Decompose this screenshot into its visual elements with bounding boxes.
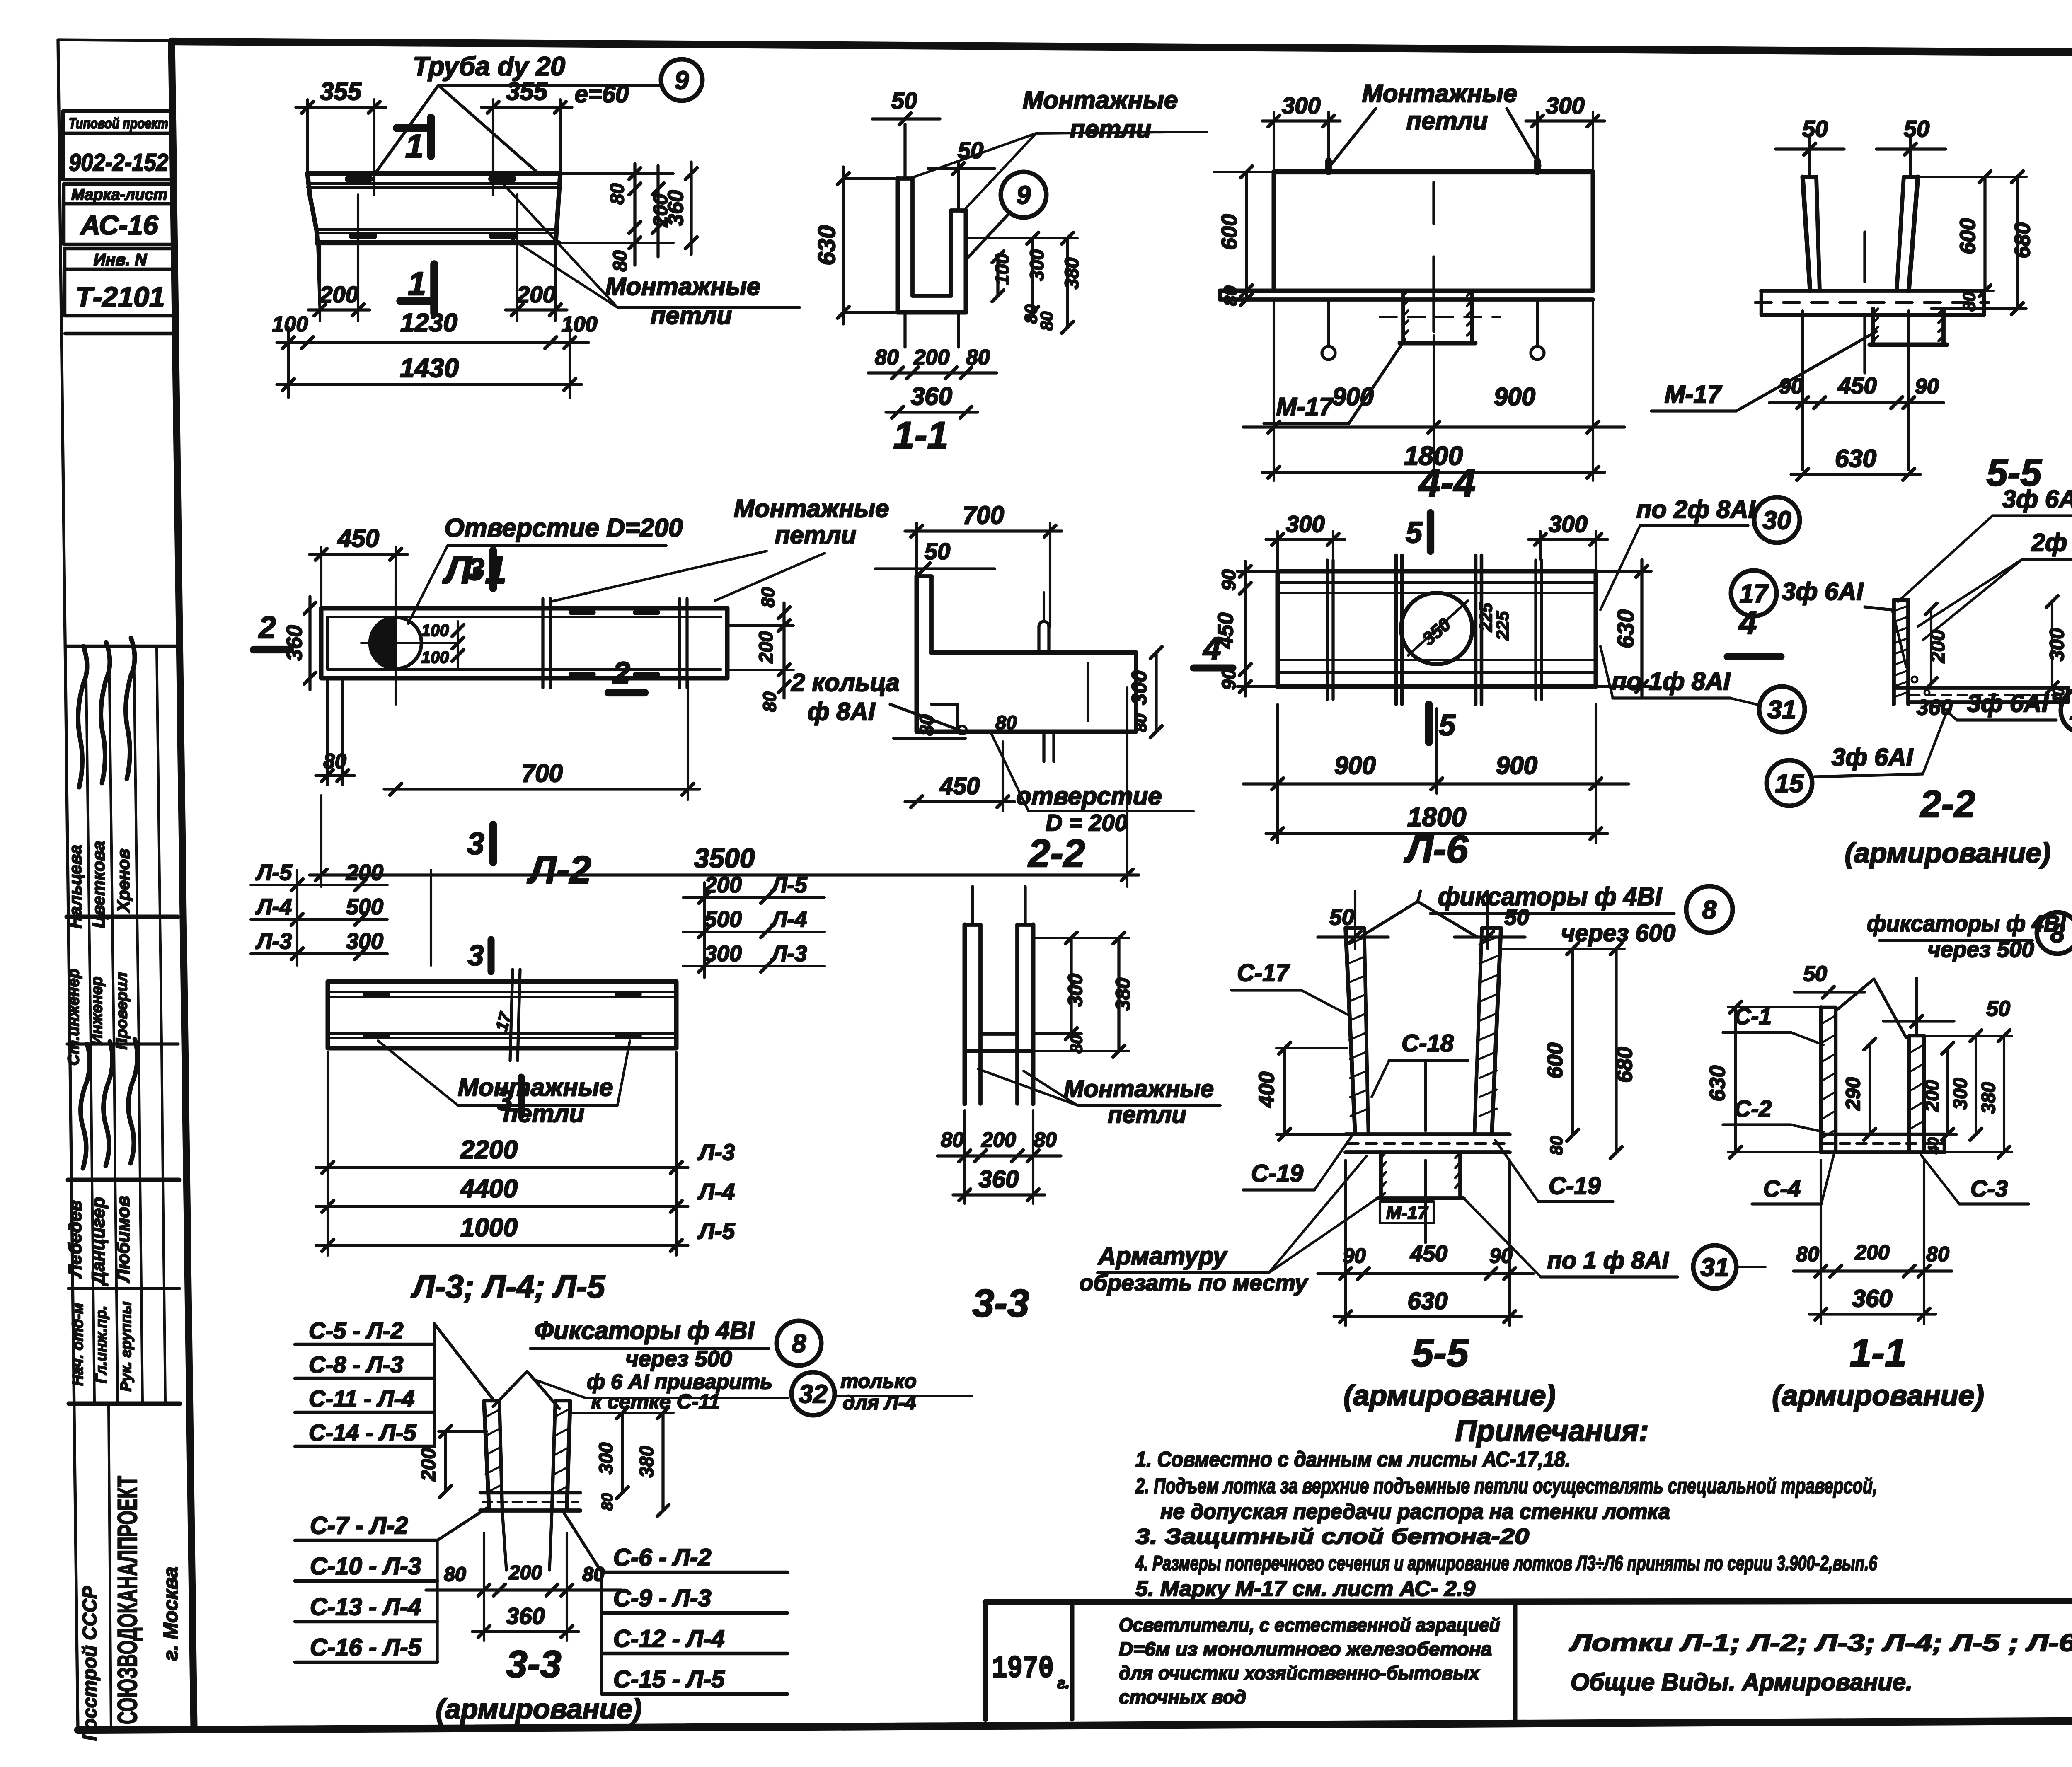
dimension 360 right of Л-1 bbox=[690, 162, 692, 254]
section mark 3 (below Л-2) bbox=[489, 824, 497, 863]
dimension 630 left of 1-1 armature bbox=[1734, 1007, 1737, 1152]
dimension 300/380 right of 3-3 bbox=[1070, 938, 1072, 1034]
dimension 80/200/80 below 1-1 armature bbox=[1794, 1269, 1952, 1272]
svg-text:450: 450 bbox=[1410, 1241, 1447, 1266]
stamp box Инв. N bbox=[65, 249, 176, 269]
section 1-1 dowel stubs below bbox=[903, 312, 906, 347]
svg-text:3ф 6АI: 3ф 6АI bbox=[2002, 485, 2072, 513]
svg-text:15: 15 bbox=[1775, 769, 1804, 798]
svg-text:Монтажные: Монтажные bbox=[1023, 86, 1178, 114]
svg-text:8: 8 bbox=[792, 1329, 806, 1358]
svg-text:1230: 1230 bbox=[400, 309, 457, 337]
section mark 1 (top) bbox=[427, 118, 435, 156]
section 2-2 armature slab band bbox=[1894, 686, 2068, 690]
svg-text:1: 1 bbox=[405, 128, 424, 164]
svg-text:сточных вод: сточных вод bbox=[1119, 1686, 1246, 1708]
svg-text:(армирование): (армирование) bbox=[1772, 1379, 1984, 1412]
dimension 700 above 2-2 bbox=[905, 529, 1062, 532]
svg-text:31: 31 bbox=[1768, 696, 1796, 724]
outer left border line bbox=[58, 40, 78, 1730]
svg-text:1. Совместно с данным см ли: 1. Совместно с данным см листы АС-17,18. bbox=[1135, 1448, 1571, 1472]
dimension 1800 below 4-4 bbox=[1262, 471, 1605, 474]
svg-text:380: 380 bbox=[1978, 1082, 1999, 1114]
stamp column top cap bbox=[58, 40, 173, 41]
svg-text:200: 200 bbox=[346, 860, 383, 885]
svg-text:80: 80 bbox=[1796, 1242, 1819, 1266]
svg-text:Л-3; Л-4; Л-5: Л-3; Л-4; Л-5 bbox=[411, 1268, 606, 1305]
svg-text:Л-2: Л-2 bbox=[527, 848, 591, 892]
svg-text:Марка-лист: Марка-лист bbox=[71, 186, 167, 203]
svg-text:40: 40 bbox=[1925, 1137, 1942, 1154]
svg-text:Л-3: Л-3 bbox=[697, 1139, 735, 1165]
svg-text:100: 100 bbox=[421, 648, 449, 667]
svg-text:петли: петли bbox=[651, 302, 732, 329]
svg-text:100: 100 bbox=[272, 312, 308, 336]
sheet top border bbox=[172, 41, 2072, 55]
svg-text:80: 80 bbox=[444, 1564, 466, 1586]
svg-text:300: 300 bbox=[346, 929, 383, 954]
dimension 50 above left wall of 1-1 bbox=[872, 117, 940, 120]
svg-text:С-11 - Л-4: С-11 - Л-4 bbox=[309, 1385, 414, 1412]
svg-text:500: 500 bbox=[346, 894, 383, 919]
svg-text:по 2ф 8АI: по 2ф 8АI bbox=[1636, 496, 1756, 523]
svg-text:С-19: С-19 bbox=[1251, 1160, 1303, 1187]
dimension 630 below 5-5 armature bbox=[1334, 1315, 1521, 1318]
svg-text:300: 300 bbox=[1549, 511, 1587, 537]
svg-text:80: 80 bbox=[875, 346, 899, 370]
svg-text:80: 80 bbox=[1132, 714, 1150, 732]
fixator leader triangle of 3-3 armature bbox=[493, 1371, 527, 1407]
section 1-1 inner wall (right, low) bbox=[949, 210, 953, 296]
dimension 300/380 right of 3-3 armature bbox=[621, 1413, 624, 1493]
svg-text:к сетке С-11: к сетке С-11 bbox=[591, 1390, 720, 1413]
section mark 3 (above Л-2) bbox=[489, 550, 497, 588]
dimension 200 left of 3-3 armature bbox=[444, 1431, 447, 1491]
dimension 600/680 right of 5-5 bbox=[1983, 177, 1986, 291]
section mark 5 (bottom of Л-6) bbox=[1425, 704, 1433, 742]
svg-text:600: 600 bbox=[1218, 214, 1242, 250]
section 3-3 armature bottom slab bbox=[480, 1491, 580, 1495]
svg-text:3. Защитный слой бетона-20: 3. Защитный слой бетона-20 bbox=[1135, 1525, 1529, 1549]
svg-text:50: 50 bbox=[891, 87, 917, 114]
dimension 1800 below Л-6 bbox=[1266, 832, 1607, 835]
svg-text:Монтажные: Монтажные bbox=[605, 273, 761, 300]
svg-text:900: 900 bbox=[1334, 752, 1376, 779]
svg-text:Монтажные: Монтажные bbox=[458, 1073, 613, 1101]
svg-text:С-8 - Л-3: С-8 - Л-3 bbox=[309, 1351, 403, 1378]
dimension 50 at wall of 2-2 bbox=[875, 567, 995, 570]
svg-text:Типовой проект: Типовой проект bbox=[69, 115, 168, 132]
svg-text:200: 200 bbox=[516, 281, 555, 307]
dim rows 200/500/300 (right) bbox=[703, 882, 706, 978]
svg-text:630: 630 bbox=[1612, 609, 1639, 648]
svg-text:300: 300 bbox=[595, 1442, 617, 1474]
svg-text:(армирование): (армирование) bbox=[436, 1693, 641, 1725]
svg-text:50: 50 bbox=[1802, 116, 1828, 142]
dimension 300 top-right of Л-6 bbox=[1529, 538, 1607, 541]
svg-text:80: 80 bbox=[760, 691, 780, 712]
section mark 3 (top of Л-3..Л-5) bbox=[487, 940, 494, 972]
svg-text:200: 200 bbox=[981, 1128, 1016, 1151]
dimension chain 90/450/90 left of Л-6 bbox=[1244, 561, 1247, 696]
svg-text:г.: г. bbox=[1057, 1675, 1070, 1692]
svg-text:31: 31 bbox=[1701, 1253, 1729, 1282]
view 4-4 axis dash lines bbox=[1432, 182, 1435, 224]
svg-text:С-19: С-19 bbox=[1549, 1172, 1601, 1199]
dimension 630 right of Л-6 bbox=[1640, 560, 1643, 698]
svg-text:355: 355 bbox=[506, 77, 548, 105]
svg-text:С-2: С-2 bbox=[1734, 1095, 1772, 1122]
svg-text:5-5: 5-5 bbox=[1411, 1331, 1469, 1375]
svg-text:360: 360 bbox=[911, 382, 952, 410]
view 4-4 loops below slab bbox=[1322, 346, 1335, 360]
svg-text:1970: 1970 bbox=[992, 1651, 1054, 1687]
svg-text:Л-5: Л-5 bbox=[770, 873, 807, 897]
svg-text:100: 100 bbox=[991, 253, 1013, 285]
svg-text:петли: петли bbox=[503, 1100, 585, 1127]
svg-text:Л-4: Л-4 bbox=[770, 907, 807, 932]
svg-text:30: 30 bbox=[1763, 506, 1791, 535]
sheet bottom border bbox=[78, 1719, 2072, 1730]
svg-text:Л-3: Л-3 bbox=[255, 929, 292, 954]
svg-text:300: 300 bbox=[2046, 628, 2068, 661]
svg-text:Т-2101: Т-2101 bbox=[75, 281, 165, 313]
svg-text:200: 200 bbox=[508, 1562, 542, 1584]
dimension 630 left of 1-1 bbox=[842, 167, 845, 324]
svg-text:1430: 1430 bbox=[400, 353, 459, 383]
title block cell 1970 bbox=[1070, 1602, 1075, 1719]
dimension 200 lower-right of Л-1 bbox=[506, 308, 567, 311]
svg-text:600: 600 bbox=[1956, 218, 1980, 254]
view 4-4 slab top line bbox=[1220, 289, 1593, 293]
svg-text:С-9 - Л-3: С-9 - Л-3 bbox=[613, 1585, 711, 1612]
dimension 50 top of 1-1 armature bbox=[1794, 991, 1865, 993]
svg-text:С-6 - Л-2: С-6 - Л-2 bbox=[613, 1544, 711, 1571]
svg-text:С-14 - Л-5: С-14 - Л-5 bbox=[309, 1419, 416, 1446]
stamp box Марка-лист bbox=[64, 184, 175, 204]
section 5-5 right wall (tapered) bbox=[1897, 177, 1904, 291]
svg-text:2ф 6АI: 2ф 6АI bbox=[2031, 529, 2072, 556]
svg-text:С-4: С-4 bbox=[1763, 1175, 1801, 1201]
dimension chain 100/1230/100 of Л-1 bbox=[277, 341, 588, 344]
svg-text:петли: петли bbox=[1070, 115, 1152, 143]
svg-text:50: 50 bbox=[1904, 116, 1929, 142]
svg-text:3-3: 3-3 bbox=[506, 1643, 562, 1685]
svg-text:680: 680 bbox=[2011, 222, 2035, 259]
section 2-2 left wall bbox=[915, 576, 919, 732]
title block frame bbox=[985, 1600, 2072, 1602]
signature squiggles mid bbox=[81, 1044, 90, 1168]
view Л-1 lifting loop marks bbox=[348, 176, 370, 182]
svg-text:50: 50 bbox=[1504, 905, 1529, 930]
dimension 50 above inner wall of 1-1 bbox=[928, 167, 995, 170]
dimension 4400 / Л-4 row bbox=[316, 1205, 688, 1208]
dimension 90/450/90 below 5-5 bbox=[1769, 401, 1944, 404]
stamp box АС-16 bbox=[64, 204, 175, 244]
svg-text:1-1: 1-1 bbox=[1849, 1331, 1906, 1375]
view Л-1 bottom edge bbox=[317, 240, 559, 245]
section 3-3 loop marks on walls bbox=[971, 887, 974, 925]
view Л-1 top slab edge bbox=[307, 171, 560, 176]
svg-text:630: 630 bbox=[1408, 1288, 1448, 1315]
svg-text:3-3: 3-3 bbox=[972, 1281, 1029, 1325]
svg-text:80: 80 bbox=[1220, 285, 1241, 306]
svg-text:1000: 1000 bbox=[460, 1213, 518, 1242]
dimension 300 top-left of 4-4 bbox=[1262, 119, 1340, 122]
dimension 400 left of 5-5 armature bbox=[1283, 1048, 1286, 1134]
dimension 90/450/90 below 5-5 armature bbox=[1318, 1272, 1533, 1275]
svg-text:С-18: С-18 bbox=[1402, 1030, 1454, 1057]
svg-text:80: 80 bbox=[1547, 1136, 1566, 1155]
section 2-2 axis dashes bbox=[1043, 592, 1045, 621]
dimension 50 above walls of 5-5 armature bbox=[1318, 935, 1388, 938]
callout circle 9 (top) bbox=[661, 59, 702, 101]
section 3-3 armature legs below bbox=[502, 1511, 506, 1570]
svg-text:3: 3 bbox=[467, 826, 484, 861]
svg-text:Ст.инженер: Ст.инженер bbox=[65, 969, 82, 1066]
svg-text:450: 450 bbox=[1214, 613, 1238, 649]
signature band frame upper bbox=[66, 645, 177, 648]
svg-text:200: 200 bbox=[319, 281, 358, 307]
section 2-2 loop on slab bbox=[1037, 626, 1040, 653]
stamp box 902-2-152 bbox=[63, 133, 174, 180]
section 1-1 slab inner line bbox=[913, 294, 951, 298]
svg-text:700: 700 bbox=[963, 501, 1004, 529]
dimension 290 inside 1-1 armature bbox=[1869, 1044, 1871, 1134]
svg-text:М-17: М-17 bbox=[1276, 393, 1334, 421]
view Л-3..Л-5 loop marks bbox=[366, 991, 387, 997]
svg-text:80: 80 bbox=[1926, 1242, 1949, 1266]
svg-text:для очистки хозяйственно-бы: для очистки хозяйственно-бытовых bbox=[1119, 1662, 1480, 1684]
svg-text:200: 200 bbox=[1854, 1241, 1890, 1264]
svg-text:2: 2 bbox=[612, 655, 630, 690]
svg-text:Л-5: Л-5 bbox=[255, 860, 292, 885]
section 1-1 loop above left wall bbox=[903, 124, 906, 179]
svg-text:не допуская передачи распо: не допуская передачи распора на стенки л… bbox=[1160, 1500, 1670, 1524]
svg-text:С-12 - Л-4: С-12 - Л-4 bbox=[613, 1625, 725, 1652]
svg-text:630: 630 bbox=[813, 225, 840, 266]
svg-text:С-10 - Л-3: С-10 - Л-3 bbox=[310, 1553, 421, 1580]
svg-text:5: 5 bbox=[1406, 516, 1423, 549]
svg-text:900: 900 bbox=[1496, 752, 1537, 779]
stamp band роли (Ст.инженер/Инженер/Проверил) bbox=[67, 915, 178, 919]
section 5-5 loops above walls bbox=[1808, 137, 1811, 177]
dimension chain 80/200/80 right of Л-1 bbox=[633, 164, 636, 265]
main frame left border (stamp column right edge) bbox=[172, 41, 194, 1728]
svg-text:3ф 6АI: 3ф 6АI bbox=[1967, 689, 2049, 717]
svg-text:902-2-152: 902-2-152 bbox=[69, 149, 168, 176]
view 4-4 body rectangle bbox=[1274, 169, 1593, 174]
section 2-2 stubs below slab bbox=[1042, 732, 1045, 761]
svg-text:360: 360 bbox=[506, 1603, 545, 1629]
svg-text:450: 450 bbox=[939, 773, 980, 800]
svg-text:2. Подъем лотка за верхние под: 2. Подъем лотка за верхние подъемные пет… bbox=[1135, 1474, 1877, 1498]
dimension 300/80 right of 2-2 bbox=[1155, 653, 1157, 732]
svg-text:по 1 ф 8АI: по 1 ф 8АI bbox=[1547, 1247, 1669, 1274]
view Л-6 outer rectangle bbox=[1278, 571, 1596, 686]
section 1-1 loop above inner wall bbox=[957, 162, 960, 210]
svg-text:С-7 - Л-2: С-7 - Л-2 bbox=[310, 1512, 408, 1539]
dimension 300 top-right of 4-4 bbox=[1526, 119, 1605, 122]
section 1-1 armature right wall bbox=[1907, 1036, 1911, 1152]
section 5-5 left wall (tapered) bbox=[1803, 177, 1810, 291]
section 5-5 armature right wall bbox=[1474, 928, 1482, 1134]
svg-text:450: 450 bbox=[337, 525, 379, 552]
svg-text:2-2: 2-2 bbox=[1027, 832, 1085, 875]
svg-text:(армирование): (армирование) bbox=[1343, 1379, 1556, 1412]
section mark 2 (left of Л-2) bbox=[254, 646, 290, 653]
svg-text:Л-4: Л-4 bbox=[255, 894, 292, 919]
view Л-6 pipe hole bbox=[1401, 593, 1472, 664]
dimension 300 top-left of Л-6 bbox=[1266, 538, 1345, 541]
svg-text:360: 360 bbox=[1917, 696, 1953, 720]
stamp box Т-2101 bbox=[65, 269, 176, 316]
svg-text:90: 90 bbox=[1218, 569, 1239, 591]
svg-text:100: 100 bbox=[562, 312, 598, 336]
view Л-2 loop tick marks bbox=[541, 599, 544, 688]
svg-text:Лотки Л-1; Л-2; Л-3; Л-4; Л: Лотки Л-1; Л-2; Л-3; Л-4; Л-5 ; Л-6. bbox=[1569, 1629, 2072, 1656]
svg-text:(армирование): (армирование) bbox=[1844, 837, 2050, 869]
svg-text:90: 90 bbox=[1779, 375, 1803, 399]
svg-text:2200: 2200 bbox=[460, 1136, 518, 1164]
section 3-3 right wall bbox=[1015, 925, 1019, 1104]
dimension 360 below 1-1 armature bbox=[1809, 1313, 1936, 1315]
section 1-1 armature bottom slab bbox=[1821, 1133, 1944, 1136]
view Л-1 top slab inner lines bbox=[307, 182, 560, 185]
svg-text:5. Марку М-17 см. лист АС-: 5. Марку М-17 см. лист АС- 2.9 bbox=[1135, 1577, 1475, 1601]
svg-text:Хренов: Хренов bbox=[114, 848, 133, 913]
svg-text:Фиксаторы ф 4ВI: Фиксаторы ф 4ВI bbox=[535, 1317, 755, 1344]
svg-text:9: 9 bbox=[675, 66, 689, 95]
svg-text:50: 50 bbox=[925, 538, 950, 564]
section 3-3 left wall bbox=[963, 925, 967, 1104]
svg-text:Госстрой СССР: Госстрой СССР bbox=[79, 1586, 100, 1741]
section mark 1 (bottom) bbox=[430, 264, 438, 313]
dimension 355 (right) bbox=[482, 106, 572, 109]
svg-text:300: 300 bbox=[1026, 249, 1048, 281]
dimension 450 below 2-2 bbox=[905, 800, 1014, 803]
callout circle 9 of section 1-1 bbox=[1001, 172, 1046, 218]
section 3-3 mid slab bbox=[980, 1032, 1017, 1036]
section 5-5 armature axis dash bbox=[1424, 1061, 1427, 1131]
svg-text:3ф 6АI: 3ф 6АI bbox=[1832, 743, 1914, 771]
svg-text:фиксаторы ф 4ВI: фиксаторы ф 4ВI bbox=[1438, 882, 1663, 911]
svg-text:360: 360 bbox=[664, 190, 688, 226]
svg-text:80: 80 bbox=[1034, 1128, 1057, 1151]
svg-text:80: 80 bbox=[758, 587, 778, 607]
dimension 360 left of Л-2 bbox=[308, 597, 311, 690]
dimension 355 (left) bbox=[296, 106, 386, 109]
svg-text:50: 50 bbox=[1986, 997, 2010, 1021]
view 4-4 lifting loops on top bbox=[1325, 161, 1332, 172]
dimension 360 below 3-3 bbox=[953, 1193, 1045, 1196]
dimension 450 of Л-2 bbox=[310, 553, 407, 556]
svg-text:С-16 - Л-5: С-16 - Л-5 bbox=[310, 1634, 421, 1661]
section 1-1 armature left wall bbox=[1819, 1007, 1823, 1152]
svg-text:С-15 - Л-5: С-15 - Л-5 bbox=[613, 1666, 725, 1693]
view Л-6 loop marks bbox=[1326, 560, 1329, 699]
svg-text:300: 300 bbox=[1949, 1078, 1971, 1110]
svg-text:Примечания:: Примечания: bbox=[1455, 1414, 1648, 1448]
dimension 80/200/80 below 3-3 armature bbox=[426, 1588, 622, 1591]
svg-text:3: 3 bbox=[467, 552, 484, 587]
svg-text:Труба dy 20: Труба dy 20 bbox=[413, 51, 565, 81]
svg-text:290: 290 bbox=[1842, 1077, 1864, 1111]
svg-text:СОЮЗВОДОКАНАЛПРОЕКТ: СОЮЗВОДОКАНАЛПРОЕКТ bbox=[112, 1476, 143, 1724]
svg-text:Л-4: Л-4 bbox=[697, 1179, 735, 1204]
stamp band фамилии (Лебедев/Данцигер/Любимов) bbox=[68, 1178, 179, 1182]
view Л-6 inner wall lines bbox=[1278, 581, 1596, 584]
svg-text:Монтажные: Монтажные bbox=[1064, 1076, 1214, 1102]
view Л-2 hole axis lines bbox=[361, 642, 458, 644]
svg-text:4-4: 4-4 bbox=[1418, 461, 1475, 505]
svg-text:300: 300 bbox=[1282, 92, 1320, 118]
callout 3ф 6АI with circle 17 (left) bbox=[1731, 570, 1777, 616]
section mark 5 (top of Л-6) bbox=[1427, 513, 1434, 551]
section 1-1 wall top cap bbox=[898, 176, 913, 181]
section 5-5 bottom slab bbox=[1761, 289, 1984, 293]
view Л-3..Л-5 break mark bbox=[510, 969, 513, 1061]
view Л-2 outer bar bbox=[321, 608, 727, 678]
svg-text:360: 360 bbox=[979, 1166, 1019, 1193]
svg-text:1-1: 1-1 bbox=[893, 414, 949, 457]
dimension 900/900 below Л-6 bbox=[1243, 782, 1629, 785]
svg-text:С-5 - Л-2: С-5 - Л-2 bbox=[309, 1317, 403, 1344]
svg-text:Монтажные: Монтажные bbox=[1362, 80, 1518, 107]
svg-text:360: 360 bbox=[283, 625, 307, 661]
svg-text:4400: 4400 bbox=[460, 1175, 518, 1203]
section 1-1 slab bottom bbox=[898, 310, 966, 315]
svg-text:900: 900 bbox=[1332, 383, 1374, 411]
svg-text:50: 50 bbox=[1803, 962, 1827, 986]
dimension 200 lower-left of Л-1 bbox=[308, 308, 370, 311]
svg-text:через 500: через 500 bbox=[625, 1346, 732, 1371]
view Л-3..Л-5 inner lines bbox=[328, 991, 676, 993]
svg-text:С-3: С-3 bbox=[1970, 1175, 2008, 1201]
svg-text:80: 80 bbox=[609, 250, 631, 272]
section 5-5 armature bottom slab bbox=[1346, 1132, 1510, 1136]
dimension 50 above walls of 5-5 bbox=[1776, 147, 1844, 150]
svg-text:300: 300 bbox=[1286, 511, 1324, 537]
svg-text:8: 8 bbox=[1702, 896, 1717, 924]
dimension 900/900 below 4-4 bbox=[1243, 425, 1624, 428]
stamp box Типовой проект bbox=[63, 111, 174, 133]
svg-text:225: 225 bbox=[1493, 611, 1512, 641]
view Л-2 inner lines bbox=[327, 616, 721, 618]
svg-text:600: 600 bbox=[1543, 1043, 1567, 1079]
dimension chain 80/200/80 below 1-1 bbox=[868, 371, 997, 374]
svg-text:80: 80 bbox=[1037, 312, 1056, 331]
callout 3ф 6АI with circle 15 bbox=[1767, 760, 1812, 806]
dimension 600/80 left of 4-4 bbox=[1245, 172, 1248, 300]
svg-text:ф 8АI: ф 8АI bbox=[807, 698, 875, 725]
svg-text:Общие Виды. Армирование.: Общие Виды. Армирование. bbox=[1571, 1669, 1912, 1696]
signature squiggles upper bbox=[78, 646, 87, 787]
callout circle 8 of 1-1 armature bbox=[2037, 912, 2072, 954]
svg-text:32: 32 bbox=[799, 1380, 828, 1409]
svg-text:1: 1 bbox=[408, 265, 426, 302]
svg-text:900: 900 bbox=[1494, 383, 1535, 411]
svg-text:D=6м из монолитного железобе: D=6м из монолитного железобетона bbox=[1119, 1638, 1492, 1660]
label М-17 box of 5-5 armature bbox=[1380, 1201, 1434, 1223]
dimension 3500 below Л-2 bbox=[310, 873, 1139, 876]
svg-text:200: 200 bbox=[418, 1448, 440, 1482]
svg-text:Отверстие D=200: Отверстие D=200 bbox=[444, 514, 683, 542]
svg-text:80: 80 bbox=[606, 183, 628, 205]
dimension 300/40 right of 2-2 armature bbox=[2051, 602, 2053, 688]
svg-text:2-2: 2-2 bbox=[1920, 783, 1975, 825]
fixator leader triangle of 5-5 armature bbox=[1363, 902, 1418, 935]
